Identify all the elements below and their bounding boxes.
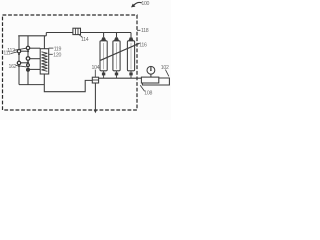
- leader 119: [49, 47, 54, 49]
- wire: lower collector: [19, 84, 44, 86]
- junction dot A2: [18, 65, 20, 67]
- leader 104: [94, 70, 96, 78]
- leader 162: [16, 65, 27, 67]
- leader 111: [11, 52, 18, 54]
- wire: B to canister stub 1: [28, 47, 40, 49]
- label 118 tick: [137, 29, 140, 31]
- svg-text:116: 116: [139, 42, 147, 48]
- valve V4 on line B: [26, 57, 30, 61]
- valve line B: [27, 36, 29, 85]
- valve V3 on line B: [26, 46, 29, 49]
- wire: B to canister stub 2: [28, 58, 40, 60]
- gauge 102: [147, 66, 155, 74]
- leader 114: [79, 35, 82, 37]
- svg-text:111: 111: [3, 51, 10, 57]
- svg-text:118: 118: [141, 28, 149, 34]
- muffler/filter 114: [73, 28, 81, 34]
- wire: A-B link upper: [19, 50, 28, 52]
- wire: product manifold: [99, 77, 142, 79]
- valve dot B3 (dark): [26, 68, 29, 71]
- svg-text:102: 102: [161, 65, 169, 71]
- leader 108: [140, 85, 144, 91]
- sieve tube 3: [127, 41, 134, 71]
- check valve 2: [116, 71, 118, 78]
- check valve 3: [130, 71, 132, 78]
- wire: jog up to main supply line: [45, 33, 47, 36]
- sieve tube 2 neck: [114, 37, 119, 41]
- sieve tube 1 neck: [101, 37, 106, 41]
- svg-text:100: 100: [141, 1, 149, 7]
- valve line A: [18, 36, 20, 85]
- svg-text:120: 120: [53, 52, 61, 58]
- regulator box 104: [92, 77, 98, 83]
- outlet arrowhead: [94, 110, 97, 113]
- canister 119 (sorbent container): [40, 49, 49, 74]
- leader 120: [49, 53, 53, 55]
- svg-text:162: 162: [9, 64, 17, 70]
- arrow to enclosure: [134, 2, 142, 5]
- sieve tube 2: [113, 41, 120, 71]
- junction dot B1: [27, 50, 29, 52]
- sieve tube 3 neck: [128, 37, 133, 41]
- valve V5 on line B: [27, 64, 30, 67]
- sieve tube drops: [104, 33, 131, 38]
- wire: outlet drop: [94, 83, 96, 111]
- leader 102: [165, 70, 169, 77]
- svg-text:119: 119: [54, 46, 62, 52]
- wire: A-B link lower: [19, 62, 28, 64]
- junction dot A1: [18, 53, 20, 55]
- sieve tube 1: [100, 41, 107, 71]
- dashed enclosure border 118: [3, 15, 138, 110]
- wire: B to canister stub 3: [28, 68, 40, 70]
- svg-text:108: 108: [144, 90, 152, 96]
- check valve 1: [103, 71, 105, 78]
- compressor box 106: [141, 77, 158, 83]
- wire: inlet header: [18, 35, 46, 37]
- canister fill zigzag: [42, 52, 48, 72]
- wire: bypass loop: [142, 78, 169, 85]
- junction dot B2: [27, 61, 29, 63]
- wire: main supply line to sieve tubes: [46, 32, 131, 34]
- canister top stub: [43, 36, 45, 49]
- valve V2 on line A: [17, 61, 20, 64]
- wire: canister bottom run to junction: [44, 74, 92, 92]
- valve V1 on line A: [17, 50, 20, 53]
- svg-text:114: 114: [81, 37, 89, 43]
- gauge stem: [150, 74, 152, 77]
- leader 112: [14, 48, 27, 50]
- leader 116 diagonal: [101, 43, 140, 60]
